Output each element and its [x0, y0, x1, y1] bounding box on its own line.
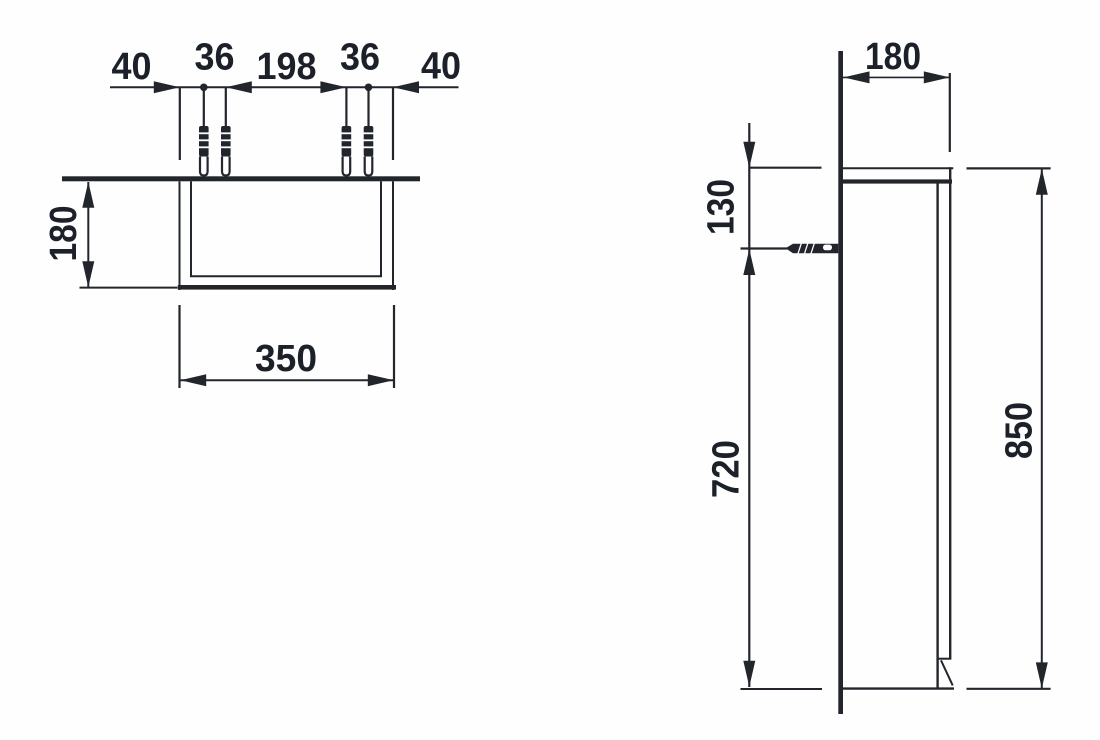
svg-text:350: 350: [255, 338, 317, 380]
svg-text:130: 130: [701, 179, 743, 235]
extension line right shelf edge: [392, 87, 394, 160]
wall plug screw 4 stem: [367, 87, 369, 127]
wall mounting surface line (thick horizontal): [62, 176, 420, 181]
extension line at cabinet bottom: [741, 688, 823, 690]
arrow pointing left at wall: [844, 71, 870, 83]
wall plug screw 3 stem: [345, 87, 347, 127]
wall plug screw 1 stem: [203, 87, 205, 127]
arrow pointing left at left edge (350): [180, 374, 206, 386]
wall plug screw 4 tip: [365, 157, 373, 176]
wall plug screw 4 body: [362, 126, 375, 157]
wall plug screw 1 tip: [200, 157, 208, 176]
arrow up at wall line: [82, 182, 94, 208]
arrow pointing right at left shelf edge: [154, 81, 180, 93]
arrow pointing right at front face: [924, 71, 950, 83]
shelf outer left side panel edge: [179, 181, 181, 290]
arrow up at screw level (shared 130 bottom / 720 top): [743, 249, 755, 275]
door bottom edge: [938, 658, 952, 660]
extension line left (350 dim): [178, 305, 180, 388]
arrow down at cabinet bottom: [1036, 662, 1048, 688]
svg-text:198: 198: [257, 46, 317, 88]
wall plug screw 2 tip: [222, 157, 230, 176]
shelf bottom panel (thick band): [178, 285, 396, 290]
130/720 dimension line: [748, 123, 750, 687]
arrow up at cabinet top: [1036, 169, 1048, 195]
arrow pointing right at right edge (350): [368, 374, 394, 386]
extension line front face (from 180 dim): [949, 73, 951, 152]
extension line at cabinet top (left of wall): [749, 167, 821, 169]
arrow pointing left at right shelf edge: [393, 81, 419, 93]
cabinet bottom edge: [843, 687, 954, 689]
extension line at shelf bottom: [80, 287, 178, 289]
svg-text:40: 40: [112, 46, 152, 88]
arrow down at cabinet bottom (720 bottom): [743, 661, 755, 687]
arrow down at shelf bottom: [82, 261, 94, 287]
cabinet top panel underside (thick): [843, 179, 952, 183]
dot at screw line 4: [365, 84, 373, 92]
extension line at screw level: [741, 247, 788, 249]
extension line top right (to 850 dim): [967, 167, 1051, 169]
cabinet top edge (thin): [843, 167, 953, 169]
dot at screw line 1: [200, 84, 208, 92]
wall plug screw 2 body: [220, 126, 233, 157]
shelf inner bottom edge: [190, 275, 382, 277]
850 dimension line: [1041, 169, 1043, 688]
svg-text:36: 36: [340, 37, 380, 79]
svg-text:40: 40: [421, 46, 461, 88]
shelf inner right side panel edge: [380, 181, 382, 277]
wall plug screw 3 body: [340, 126, 353, 157]
door bottom bevel diagonal: [941, 660, 953, 685]
extension line left shelf edge: [179, 87, 181, 160]
cabinet inner front edge: [936, 181, 938, 689]
shelf outer right side panel edge: [392, 181, 394, 290]
cabinet front face (door): [949, 167, 951, 659]
svg-text:720: 720: [706, 440, 748, 498]
svg-text:36: 36: [195, 37, 235, 79]
180 depth dimension line: [843, 76, 950, 78]
extension line bottom right (to 850 dim): [967, 688, 1051, 690]
extension line right (350 dim): [393, 305, 395, 388]
180 dimension line (left view): [87, 182, 89, 287]
svg-text:850: 850: [999, 402, 1041, 459]
wall plug screw 1 body: [198, 126, 211, 157]
wall line (thick vertical): [838, 51, 843, 714]
arrow down at cabinet top level (130 top, outside): [743, 142, 755, 168]
top dimension line 40/36/198/36/40: [110, 86, 459, 88]
mounting screw (horizontal, into wall): [786, 243, 839, 254]
wall plug screw 2 stem: [225, 87, 227, 127]
svg-text:180: 180: [43, 206, 85, 262]
350 dimension line: [180, 379, 394, 381]
arrow pointing right at screw line 3 (198 right end): [320, 81, 346, 93]
svg-text:180: 180: [865, 36, 921, 78]
arrow pointing left at screw line 2 (198 left end): [226, 81, 252, 93]
shelf inner left side panel edge: [190, 181, 192, 277]
wall plug screw 3 tip: [343, 157, 351, 176]
